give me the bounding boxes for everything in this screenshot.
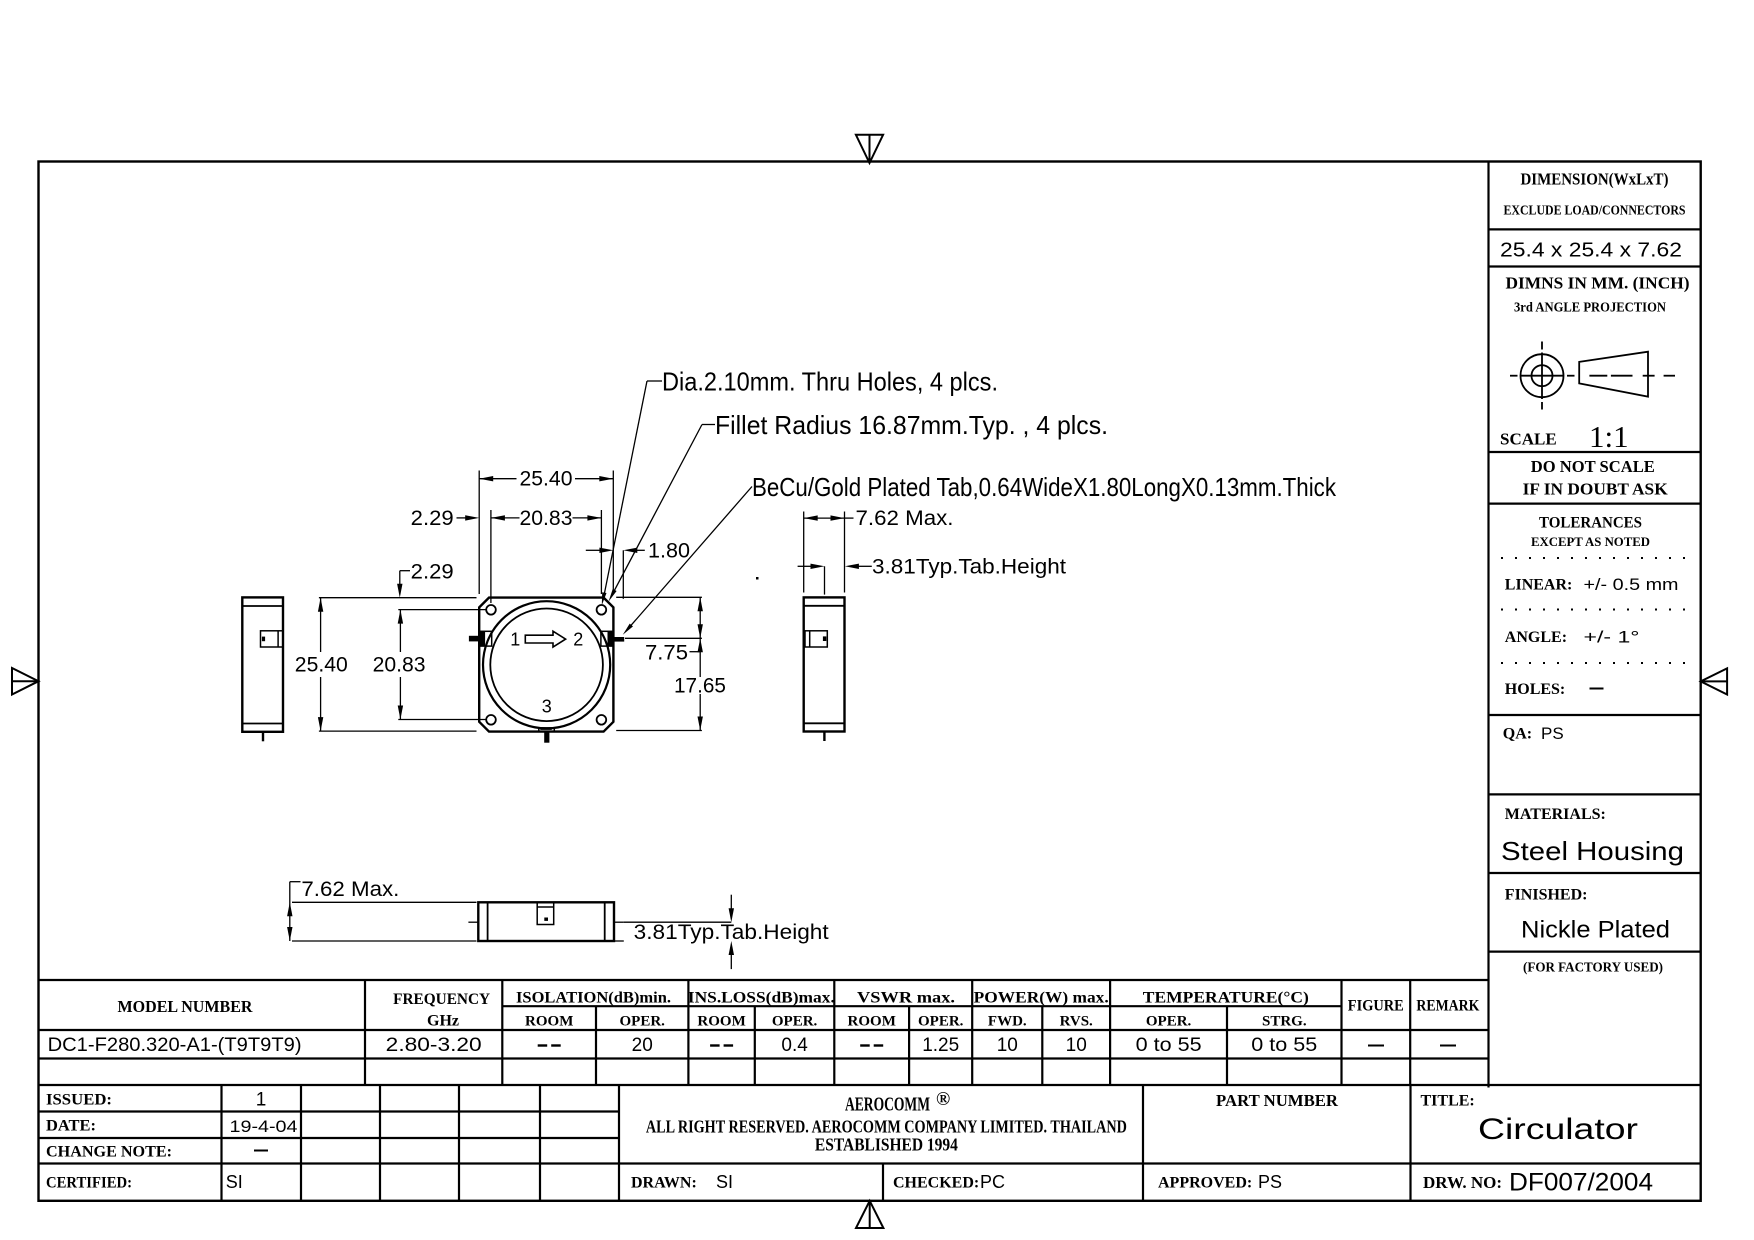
svg-text:ESTABLISHED 1994: ESTABLISHED 1994 (815, 1135, 958, 1155)
dimns in mm section text (1506, 274, 1690, 315)
approved cell text (1158, 1172, 1282, 1192)
svg-text:20.83: 20.83 (373, 654, 426, 677)
svg-text:PC: PC (980, 1172, 1005, 1192)
left side view bottom pin (262, 732, 264, 742)
QA section text (1503, 724, 1564, 743)
svg-text:20.83: 20.83 (520, 507, 573, 530)
svg-text:DRW. NO:: DRW. NO: (1423, 1173, 1502, 1192)
svg-text:TITLE:: TITLE: (1421, 1093, 1475, 1110)
dimension 25.40 vertical left (295, 598, 477, 731)
sheet border frame (39, 162, 1701, 1201)
company name block text (646, 1089, 1127, 1155)
svg-text:DIMENSION(WxLxT): DIMENSION(WxLxT) (1521, 170, 1669, 189)
title cell text (1421, 1093, 1639, 1147)
svg-text:10: 10 (997, 1035, 1018, 1056)
svg-text:17.65: 17.65 (674, 675, 726, 698)
part number cell text (1216, 1091, 1339, 1110)
dimension 2.29 left of square (397, 560, 454, 597)
svg-text:INS.LOSS(dB)max.: INS.LOSS(dB)max. (688, 990, 835, 1007)
front view housing outline (479, 598, 613, 732)
port 3 tab bottom (539, 727, 555, 742)
front view outer circle (483, 601, 610, 728)
tolerance dotted separator 3 (1501, 662, 1692, 664)
svg-text:REMARK: REMARK (1416, 998, 1479, 1015)
dimension 20.83 horizontal top (491, 507, 602, 603)
svg-text:DIMNS IN MM. (INCH): DIMNS IN MM. (INCH) (1506, 274, 1690, 293)
svg-text:DATE:: DATE: (46, 1118, 96, 1135)
svg-text:DF007/2004: DF007/2004 (1509, 1169, 1653, 1197)
checked cell text (893, 1172, 1005, 1192)
finished section text (1505, 887, 1670, 944)
svg-text:MODEL NUMBER: MODEL NUMBER (118, 997, 254, 1016)
svg-text:ROOM: ROOM (697, 1013, 745, 1029)
svg-text:®: ® (936, 1089, 950, 1110)
drawn cell text (631, 1172, 733, 1192)
front view inner circle (490, 609, 603, 722)
svg-text:7.62 Max.: 7.62 Max. (856, 507, 954, 530)
dimension section text (1504, 170, 1686, 218)
angle tolerance text (1505, 628, 1640, 647)
svg-text:Circulator: Circulator (1478, 1113, 1638, 1146)
linear tolerance text (1505, 575, 1679, 594)
svg-text:STRG.: STRG. (1262, 1013, 1307, 1029)
svg-text:19-4-04: 19-4-04 (230, 1117, 298, 1136)
right side view body (804, 597, 845, 731)
spec table column headers (118, 990, 1480, 1030)
dimension 7.62 Max bottom view (287, 878, 476, 941)
centering mark bottom (856, 1201, 883, 1228)
port 2 tab right (601, 631, 624, 646)
svg-text:Steel Housing: Steel Housing (1501, 836, 1684, 866)
svg-text:GHz: GHz (427, 1013, 459, 1030)
overall size text (1500, 240, 1682, 262)
svg-text:3.81Typ.Tab.Height: 3.81Typ.Tab.Height (872, 555, 1066, 578)
svg-text:2: 2 (573, 629, 583, 649)
tolerances section text (1531, 515, 1650, 550)
svg-text:SCALE: SCALE (1500, 430, 1557, 449)
svg-text:10: 10 (1066, 1035, 1087, 1056)
svg-text:FWD.: FWD. (988, 1013, 1027, 1029)
port number 3 (542, 696, 552, 716)
svg-text:1.80: 1.80 (648, 539, 690, 562)
svg-text:ANGLE:: ANGLE: (1505, 629, 1567, 646)
left side view body (242, 597, 283, 731)
svg-text:VSWR max.: VSWR max. (857, 990, 955, 1007)
svg-text:SI: SI (716, 1172, 733, 1192)
svg-text:ISOLATION(dB)min.: ISOLATION(dB)min. (516, 990, 671, 1007)
svg-text:+/- 1°: +/- 1° (1584, 628, 1640, 647)
svg-text:ROOM: ROOM (848, 1013, 896, 1029)
svg-text:1.25: 1.25 (922, 1035, 959, 1056)
port 1 tab left (469, 631, 492, 646)
svg-text:FINISHED:: FINISHED: (1505, 887, 1588, 904)
svg-text:DO NOT SCALE: DO NOT SCALE (1531, 457, 1655, 476)
svg-text:0 to 55: 0 to 55 (1136, 1035, 1202, 1056)
svg-text:OPER.: OPER. (772, 1013, 818, 1029)
svg-text:CHECKED:: CHECKED: (893, 1175, 979, 1192)
svg-text:25.40: 25.40 (520, 468, 573, 491)
svg-text:2.29: 2.29 (411, 560, 454, 583)
bottom view tab detail (537, 902, 554, 924)
holes tolerance text (1505, 681, 1604, 698)
dimension 7.62 Max right side view (804, 507, 954, 592)
svg-text:FREQUENCY: FREQUENCY (393, 991, 490, 1008)
issued row text (46, 1090, 266, 1111)
bottom view tab height ticks (468, 921, 623, 923)
svg-text:3rd ANGLE PROJECTION: 3rd ANGLE PROJECTION (1514, 300, 1666, 315)
svg-text:2.80-3.20: 2.80-3.20 (386, 1035, 482, 1056)
svg-text:BeCu/Gold Plated Tab,0.64Wid: BeCu/Gold Plated Tab,0.64WideX1.80LongX0… (752, 472, 1337, 502)
svg-text:Nickle Plated: Nickle Plated (1521, 917, 1670, 944)
revision and signature block gridlines (39, 1085, 1701, 1201)
svg-text:25.40: 25.40 (295, 654, 348, 677)
certified row text (46, 1172, 243, 1192)
right side view tab detail (805, 631, 827, 647)
leader note fillet radius (609, 410, 1108, 602)
svg-text:EXCLUDE LOAD/CONNECTORS: EXCLUDE LOAD/CONNECTORS (1504, 203, 1686, 218)
svg-text:DRAWN:: DRAWN: (631, 1175, 697, 1192)
svg-text:3: 3 (542, 696, 552, 716)
mounting hole top-right (597, 605, 607, 615)
svg-text:(FOR FACTORY USED): (FOR FACTORY USED) (1523, 961, 1663, 976)
mounting hole bottom-right (597, 715, 607, 725)
change note row text (46, 1144, 268, 1161)
specification table gridlines (39, 980, 1701, 1085)
svg-text:1:1: 1:1 (1589, 419, 1629, 454)
tolerance dotted separator 2 (1501, 609, 1692, 611)
svg-text:Dia.2.10mm. Thru Holes, 4: Dia.2.10mm. Thru Holes, 4 plcs. (662, 366, 998, 396)
port number 2 (573, 629, 583, 649)
svg-text:3.81Typ.Tab.Height: 3.81Typ.Tab.Height (634, 921, 829, 944)
svg-text:FIGURE: FIGURE (1348, 998, 1404, 1015)
svg-text:OPER.: OPER. (619, 1013, 665, 1029)
svg-text:20: 20 (632, 1035, 653, 1056)
svg-text:Fillet Radius 16.87mm.Typ.: Fillet Radius 16.87mm.Typ. , 4 plcs. (715, 410, 1108, 440)
svg-text:RVS.: RVS. (1060, 1013, 1093, 1029)
for factory used text (1523, 961, 1663, 976)
svg-text:ISSUED:: ISSUED: (46, 1092, 112, 1109)
svg-text:MATERIALS:: MATERIALS: (1505, 806, 1606, 823)
title block right panel gridlines (1489, 162, 1701, 1088)
svg-text:PS: PS (1258, 1172, 1282, 1192)
dimension 7.75 right (616, 597, 703, 664)
svg-text:LINEAR:: LINEAR: (1505, 577, 1573, 594)
svg-text:OPER.: OPER. (1146, 1013, 1192, 1029)
dimension 17.65 right (616, 638, 726, 730)
dimension 2.29 upper left (411, 507, 480, 530)
drawing number cell text (1423, 1169, 1653, 1197)
scale text (1500, 419, 1629, 454)
left side view tab detail (261, 631, 283, 647)
third angle projection symbol (1510, 342, 1675, 410)
tolerance dotted separator 1 (1501, 557, 1692, 559)
port number 1 (510, 629, 520, 649)
svg-text:CHANGE NOTE:: CHANGE NOTE: (46, 1144, 172, 1161)
svg-text:25.4 x 25.4 x 7.62: 25.4 x 25.4 x 7.62 (1500, 240, 1682, 262)
circulation direction block arrow (525, 631, 565, 647)
mounting hole top-left (486, 605, 496, 615)
svg-text:SI: SI (226, 1172, 243, 1192)
svg-text:0 to 55: 0 to 55 (1251, 1035, 1317, 1056)
svg-text:EXCEPT AS NOTED: EXCEPT AS NOTED (1531, 534, 1650, 549)
svg-text:HOLES:: HOLES: (1505, 681, 1565, 698)
centering mark top (856, 135, 883, 163)
leader note thru holes (602, 366, 998, 605)
dimension 25.40 horizontal top (479, 468, 613, 594)
svg-text:AEROCOMM: AEROCOMM (845, 1094, 930, 1116)
leader note becu gold plated tab (623, 472, 1337, 635)
svg-text:ALL RIGHT RESERVED. AEROCOM: ALL RIGHT RESERVED. AEROCOMM COMPANY LIM… (646, 1117, 1127, 1137)
svg-text:2.29: 2.29 (411, 507, 454, 530)
svg-text:PART NUMBER: PART NUMBER (1216, 1091, 1339, 1110)
dimension 3.81 tab height bottom view (614, 895, 829, 969)
svg-text:APPROVED:: APPROVED: (1158, 1175, 1252, 1192)
dimension 20.83 vertical left (373, 610, 486, 720)
svg-text:ROOM: ROOM (525, 1013, 573, 1029)
svg-text:+/- 0.5 mm: +/- 0.5 mm (1584, 575, 1679, 594)
svg-text:1: 1 (510, 629, 520, 649)
svg-text:OPER.: OPER. (918, 1013, 964, 1029)
svg-text:POWER(W) max.: POWER(W) max. (974, 990, 1109, 1007)
dimension 3.81 tab height right side view (798, 555, 1067, 594)
svg-text:CERTIFIED:: CERTIFIED: (46, 1175, 132, 1192)
svg-text:7.62 Max.: 7.62 Max. (301, 878, 399, 901)
centering mark left (12, 668, 39, 695)
bottom view body (478, 902, 614, 941)
right side view bottom pin (823, 732, 825, 742)
svg-text:TOLERANCES: TOLERANCES (1539, 515, 1642, 532)
centering mark right (1701, 668, 1727, 694)
svg-text:DC1-F280.320-A1-(T9T9T9): DC1-F280.320-A1-(T9T9T9) (48, 1035, 302, 1056)
spec table data row (48, 1035, 1456, 1056)
stray reference point (756, 577, 759, 580)
mounting hole bottom-left (486, 715, 496, 725)
svg-text:7.75: 7.75 (645, 641, 688, 664)
svg-text:PS: PS (1541, 724, 1564, 743)
date row text (46, 1117, 298, 1136)
svg-text:1: 1 (256, 1090, 267, 1111)
svg-text:0.4: 0.4 (781, 1035, 808, 1056)
svg-text:IF IN DOUBT ASK: IF IN DOUBT ASK (1523, 480, 1669, 499)
svg-text:QA:: QA: (1503, 726, 1532, 743)
do not scale section text (1523, 457, 1669, 499)
materials section text (1501, 806, 1684, 866)
dimension 1.80 (586, 539, 690, 599)
svg-text:TEMPERATURE(°C): TEMPERATURE(°C) (1143, 990, 1309, 1007)
